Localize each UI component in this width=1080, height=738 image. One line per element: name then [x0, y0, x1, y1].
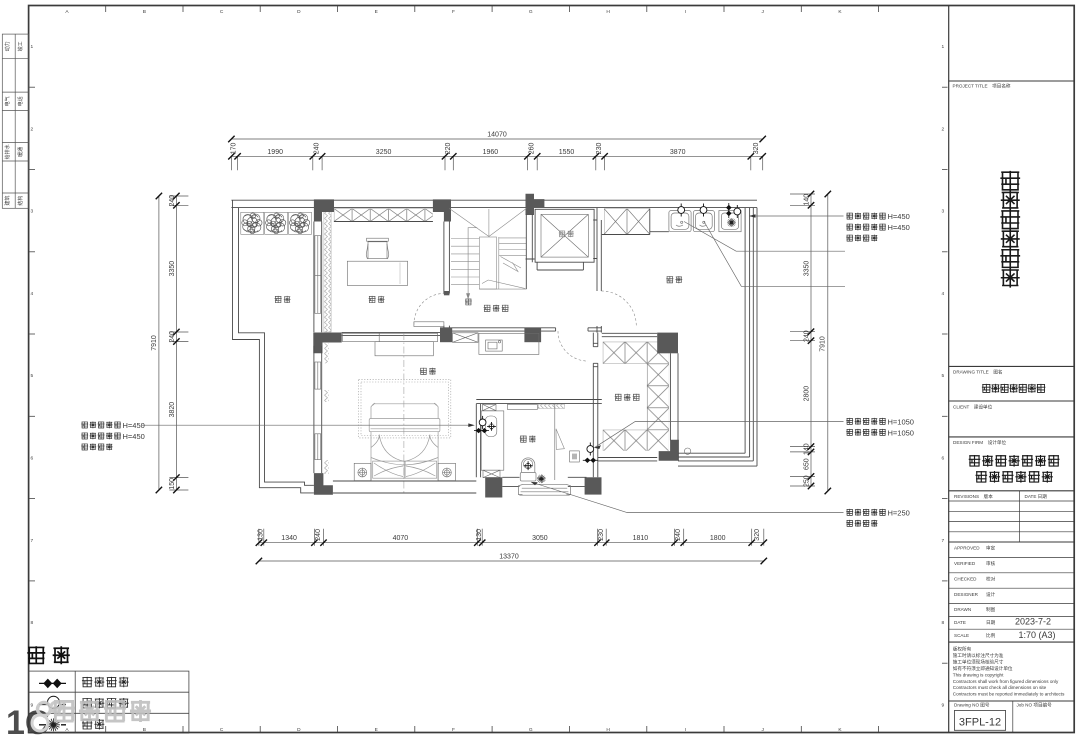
annotation: left H=450 — [81, 421, 121, 428]
room label left terrace — [275, 296, 291, 303]
svg-text:4: 4 — [31, 291, 34, 297]
svg-text:3250: 3250 — [376, 149, 392, 156]
door jamb block study — [444, 291, 450, 295]
wall: bedroom left with windows — [314, 346, 322, 473]
svg-text:PROJECT TITLE 项目名称: PROJECT TITLE 项目名称 — [953, 83, 1011, 90]
drain point near toilet — [537, 475, 546, 484]
water points: bath right cluster — [587, 443, 594, 456]
svg-text:220: 220 — [445, 143, 452, 155]
svg-text:Contractors must check all dim: Contractors must check all dimensions on… — [953, 685, 1047, 690]
svg-text:H: H — [606, 9, 610, 15]
drain circle terrace — [684, 448, 690, 454]
room label master bedroom — [420, 368, 436, 375]
svg-text:7910: 7910 — [151, 335, 158, 351]
room label down — [465, 299, 472, 305]
wardrobe band bedroom top — [343, 333, 438, 341]
svg-text:7: 7 — [942, 538, 945, 544]
svg-text:1C: 1C — [6, 704, 49, 738]
svg-text:1960: 1960 — [483, 149, 499, 156]
svg-text:3050: 3050 — [532, 535, 548, 542]
svg-text:DATE: DATE — [954, 620, 966, 625]
dimension: right total 7910 — [827, 194, 829, 491]
dimension chain: right segments — [790, 194, 815, 486]
svg-text:1: 1 — [31, 44, 34, 50]
wall: cloakroom right — [670, 353, 678, 440]
svg-text:2800: 2800 — [804, 386, 811, 402]
bed centerline — [403, 333, 405, 495]
svg-text:170: 170 — [231, 143, 238, 155]
project name vertical: 长沙西湖御苑 — [1000, 171, 1020, 288]
stubs: elevator to terrace wall — [593, 220, 597, 259]
svg-text:130: 130 — [476, 529, 483, 541]
svg-text:240: 240 — [169, 331, 176, 343]
door: study (dashed swing arc) — [414, 322, 444, 327]
drawing title: 三层水路点位图 — [982, 384, 1046, 393]
title block small headers — [953, 83, 1053, 709]
svg-text:H=250: H=250 — [888, 508, 910, 517]
left discipline table — [2, 34, 28, 208]
svg-text:6: 6 — [942, 456, 945, 462]
legend heading 图例 — [27, 646, 70, 664]
shower partition — [554, 404, 556, 480]
svg-text:This drawing is copyright: This drawing is copyright — [953, 672, 1004, 677]
svg-text:动力: 动力 — [4, 41, 11, 51]
svg-text:D: D — [297, 727, 301, 733]
svg-text:3FPL-12: 3FPL-12 — [959, 717, 1001, 729]
column: bedroom bottom-left L — [314, 473, 333, 495]
water symbols at sinks — [678, 204, 685, 217]
wall: hall bottom / bedroom top right — [440, 328, 602, 331]
svg-text:140: 140 — [804, 443, 811, 455]
svg-text:1340: 1340 — [281, 535, 297, 542]
closet X band terrace top — [604, 209, 650, 235]
watermark bottom-left — [6, 700, 151, 738]
svg-text:3350: 3350 — [169, 261, 176, 277]
sink 2 — [693, 211, 714, 232]
X cell left of bedroom top — [453, 333, 479, 343]
column: cloakroom top-right — [657, 333, 678, 354]
svg-text:施工单位须现场核验尺寸: 施工单位须现场核验尺寸 — [953, 658, 1004, 665]
svg-text:5: 5 — [31, 373, 34, 379]
wall: hall-terrace — [597, 208, 601, 333]
svg-text:13370: 13370 — [499, 554, 519, 561]
svg-text:140: 140 — [804, 194, 811, 206]
stair down arrow — [468, 228, 477, 296]
svg-text:240: 240 — [315, 529, 322, 541]
svg-text:1:70 (A3): 1:70 (A3) — [1018, 630, 1055, 640]
annotation: right middle H=1050 — [846, 418, 886, 425]
svg-text:D: D — [297, 9, 301, 15]
vanity counter bath left — [481, 411, 504, 470]
staircase — [449, 209, 526, 290]
column: top wall left — [314, 199, 334, 221]
legend texts — [82, 677, 129, 687]
svg-text:7910: 7910 — [820, 336, 827, 352]
svg-text:G: G — [529, 9, 533, 15]
svg-text:240: 240 — [314, 143, 321, 155]
svg-text:结构: 结构 — [17, 196, 24, 206]
svg-text:Contractors must be reported i: Contractors must be reported immediately… — [953, 692, 1065, 697]
svg-text:E: E — [375, 727, 378, 733]
svg-text:2: 2 — [942, 126, 945, 132]
svg-text:CHECKED: CHECKED — [954, 577, 977, 582]
svg-text:H=450: H=450 — [123, 432, 145, 441]
floor drain square (exhaust) — [570, 451, 580, 462]
room label cloakroom — [615, 394, 640, 401]
annotation: right bottom H=250 — [846, 509, 886, 516]
column: bedroom top-left (L) — [313, 333, 341, 354]
svg-text:建筑: 建筑 — [4, 196, 11, 206]
svg-text:G: G — [529, 727, 533, 733]
wall: bedroom bottom — [333, 481, 476, 493]
svg-text:制图: 制图 — [986, 606, 996, 613]
door: hall to bedroom (dashed arc) — [558, 331, 588, 361]
svg-text:H=1050: H=1050 — [888, 417, 914, 426]
water points: bath left cluster — [479, 416, 486, 429]
svg-text:650: 650 — [804, 458, 811, 470]
dimension: left total 7910 — [158, 196, 160, 490]
svg-text:审核: 审核 — [986, 560, 996, 567]
svg-text:150: 150 — [169, 478, 176, 490]
ruler numbers, left and right edges — [30, 44, 948, 708]
svg-text:REVISIONS 版本: REVISIONS 版本 — [954, 493, 993, 500]
svg-text:DESIGN FIRM 设计单位: DESIGN FIRM 设计单位 — [953, 439, 1006, 446]
svg-text:130: 130 — [257, 529, 264, 541]
room label master bath — [520, 436, 536, 443]
svg-text:1: 1 — [942, 44, 945, 50]
steps at bath bottom — [519, 484, 571, 495]
svg-text:CLIENT 建设单位: CLIENT 建设单位 — [953, 404, 993, 411]
svg-text:B: B — [143, 727, 146, 733]
terrace right parapet corner lines — [745, 208, 757, 467]
svg-text:比例: 比例 — [986, 632, 996, 639]
sink 1 — [669, 211, 691, 232]
svg-text:施工时请以标注尺寸为准: 施工时请以标注尺寸为准 — [953, 652, 1004, 659]
design firm name — [969, 455, 1060, 467]
svg-text:H=450: H=450 — [123, 421, 145, 430]
leader: right middle H=1050 — [594, 422, 843, 448]
svg-text:校对: 校对 — [986, 576, 996, 583]
bath top cabinets — [507, 404, 537, 409]
svg-text:F: F — [452, 727, 455, 733]
wall: stair-elevator — [526, 214, 532, 289]
wall: bedroom top (study bottom) — [342, 332, 440, 335]
plants on terrace — [241, 212, 264, 234]
svg-text:版权所有: 版权所有 — [953, 646, 972, 653]
svg-text:Contractors shall work from fi: Contractors shall work from figured dime… — [953, 679, 1059, 684]
rug dashed — [359, 380, 451, 438]
bed — [369, 403, 440, 480]
wall: corridor-cloakroom — [593, 333, 598, 478]
svg-text:DRAWN: DRAWN — [954, 607, 971, 612]
svg-text:电气: 电气 — [4, 96, 11, 106]
svg-text:SCALE: SCALE — [954, 633, 969, 638]
title block — [949, 81, 1074, 733]
leader: sink drains — [684, 222, 845, 252]
svg-text:APPROVED: APPROVED — [954, 546, 980, 551]
cabinet band with X hatch, study top — [334, 209, 433, 222]
copyright block — [953, 646, 1065, 697]
svg-text:260: 260 — [528, 143, 535, 155]
svg-text:230: 230 — [596, 143, 603, 155]
wall: bath left — [476, 404, 480, 478]
wall below elevator: recessed door — [526, 259, 584, 270]
svg-text:暖通: 暖通 — [17, 147, 24, 157]
svg-text:H=450: H=450 — [888, 223, 910, 232]
column: hall bottom mid — [524, 328, 541, 342]
svg-text:2023-7-2: 2023-7-2 — [1015, 617, 1051, 627]
annotation: right top supply/drain — [846, 213, 886, 220]
svg-text:如有不符须立即通知设计单位: 如有不符须立即通知设计单位 — [953, 665, 1013, 672]
dimension: top total 14070 — [231, 138, 762, 140]
svg-text:C: C — [220, 727, 224, 733]
svg-text:H=1050: H=1050 — [888, 428, 914, 437]
wall: bath bottom with steps — [502, 477, 586, 486]
svg-text:F: F — [452, 9, 455, 15]
leader: right top (sink supply) — [749, 215, 844, 217]
column: cloakroom bottom-right (L) — [659, 440, 679, 461]
room label elevator — [559, 230, 574, 237]
column: top wall mid (study right) — [433, 199, 451, 221]
room label right terrace — [666, 276, 682, 283]
svg-text:1800: 1800 — [710, 535, 726, 542]
hatch strip study left — [324, 212, 331, 333]
svg-text:250: 250 — [804, 475, 811, 487]
svg-text:240: 240 — [804, 330, 811, 342]
svg-text:4070: 4070 — [393, 535, 409, 542]
svg-text:竣工: 竣工 — [17, 41, 24, 51]
svg-text:Job NO 项目编号: Job NO 项目编号 — [1017, 702, 1053, 709]
svg-text:2: 2 — [31, 126, 34, 132]
column: bath bottom-left — [485, 477, 502, 497]
svg-text:B: B — [143, 9, 146, 15]
svg-text:3820: 3820 — [169, 402, 176, 418]
legend symbols — [39, 682, 66, 684]
svg-text:240: 240 — [169, 195, 176, 207]
closet X band: cloakroom (U shape) — [603, 342, 669, 364]
svg-text:320: 320 — [754, 529, 761, 541]
wall: top exterior — [231, 200, 757, 207]
svg-text:H=450: H=450 — [888, 212, 910, 221]
svg-text:3: 3 — [31, 209, 34, 215]
svg-text:H: H — [606, 727, 610, 733]
svg-text:3350: 3350 — [804, 261, 811, 277]
wall: study right / stair left — [444, 222, 450, 333]
X cells bath left wall ends — [483, 404, 497, 410]
legend table — [29, 671, 189, 733]
toilet — [520, 458, 536, 481]
svg-text:1990: 1990 — [267, 149, 283, 156]
wall: cloakroom bottom — [598, 458, 657, 461]
room label study — [369, 296, 385, 303]
dimension chain: top segments — [231, 156, 762, 170]
svg-text:给排水: 给排水 — [4, 144, 11, 159]
svg-text:1810: 1810 — [633, 535, 649, 542]
svg-text:3870: 3870 — [670, 149, 686, 156]
column: hall bottom left — [440, 328, 452, 342]
washer box — [719, 211, 741, 232]
column: bath bottom-right — [585, 477, 602, 494]
room label stair hall — [484, 305, 509, 312]
wall: cloakroom top — [602, 333, 657, 336]
desk in study — [347, 261, 407, 285]
leader: right bottom H=250 — [531, 482, 844, 513]
svg-text:9: 9 — [942, 702, 945, 708]
nightstand right — [438, 463, 455, 480]
wall: left terrace parapet — [233, 200, 314, 493]
dimension chain: bottom segments — [259, 529, 764, 546]
svg-text:320: 320 — [753, 143, 760, 155]
svg-text:240: 240 — [675, 529, 682, 541]
svg-text:8: 8 — [942, 620, 945, 626]
water point: toilet — [524, 461, 533, 470]
svg-text:E: E — [375, 9, 378, 15]
elevator shaft — [535, 209, 594, 262]
nightstand left — [354, 463, 371, 480]
svg-text:4: 4 — [942, 291, 945, 297]
door: hall to terrace (dashed arc) — [601, 291, 636, 326]
svg-text:7: 7 — [31, 538, 34, 544]
svg-text:6: 6 — [31, 456, 34, 462]
svg-text:5: 5 — [942, 373, 945, 379]
svg-text:1550: 1550 — [559, 149, 575, 156]
svg-text:I: I — [685, 9, 686, 15]
svg-text:I: I — [685, 727, 686, 733]
svg-text:8: 8 — [31, 620, 34, 626]
svg-text:DRAWING TITLE 图名: DRAWING TITLE 图名 — [953, 369, 1003, 376]
leader: left H=450 — [142, 424, 471, 426]
svg-text:VERIFIED: VERIFIED — [954, 561, 976, 566]
wall: study-terrace with window — [314, 222, 322, 333]
svg-text:设计: 设计 — [986, 591, 996, 598]
svg-text:C: C — [220, 9, 224, 15]
dimension: bottom total 13370 — [259, 560, 764, 562]
ruler letters and ticks, top edge — [65, 6, 878, 15]
ruler letters and ticks, bottom edge — [65, 726, 878, 733]
counter with appliance, corridor top — [479, 333, 539, 354]
svg-text:230: 230 — [598, 529, 605, 541]
svg-text:电话: 电话 — [17, 96, 24, 106]
svg-text:DESIGNER: DESIGNER — [954, 592, 979, 597]
svg-text:审定: 审定 — [986, 545, 996, 552]
column: top wall at elevator (T shape) — [526, 194, 545, 215]
svg-text:14070: 14070 — [487, 132, 507, 139]
svg-text:3: 3 — [942, 209, 945, 215]
dimension chain: left segments — [169, 196, 188, 490]
wall: bath top — [476, 400, 602, 404]
chair in study — [368, 242, 387, 259]
